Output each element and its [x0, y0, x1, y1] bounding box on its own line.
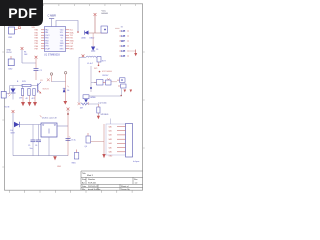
wire — [10, 85, 38, 87]
svg-text:SCH-001: SCH-001 — [88, 183, 97, 185]
svg-text:GPI: GPI — [121, 29, 126, 33]
svg-text:SA1: SA1 — [109, 130, 112, 133]
svg-text:V5 IN: V5 IN — [5, 107, 10, 109]
svg-text:C9 4u: C9 4u — [71, 140, 76, 142]
svg-text:PA0: PA0 — [45, 29, 48, 32]
transistor circuit mid-left : header — [17, 81, 27, 83]
svg-text:PB4: PB4 — [45, 40, 48, 42]
svg-text:IN 5V: IN 5V — [7, 52, 13, 54]
svg-text:SW1: SW1 — [72, 163, 76, 165]
regulator section: power cross + wire — [12, 110, 15, 124]
svg-text:3V3: 3V3 — [94, 68, 97, 70]
svg-text:SOT23: SOT23 — [43, 89, 49, 91]
capacitor C9 on rail — [66, 136, 76, 155]
small part far right — [107, 78, 132, 96]
sheet frame — [5, 4, 143, 190]
svg-text:Q4: Q4 — [85, 146, 87, 148]
capacitor C1 — [34, 56, 42, 80]
svg-text:hr bpw: hr bpw — [133, 160, 140, 163]
connector J3 bottom right — [106, 124, 133, 158]
net label text GND_IN — [7, 50, 13, 55]
svg-text:CN2: CN2 — [8, 68, 13, 70]
U1 pin names inside — [45, 29, 64, 51]
box LM part — [83, 95, 122, 99]
svg-text:OSCI: OSCI — [45, 35, 50, 37]
regulator U2 box — [41, 123, 57, 137]
resistor R3 vertical — [21, 86, 23, 96]
svg-text:D6: D6 — [67, 90, 69, 92]
resistor R2 horizontal — [22, 84, 31, 86]
node B test point — [64, 72, 66, 101]
svg-text:C12 100n: C12 100n — [98, 103, 107, 105]
ground rail bottom — [13, 125, 68, 161]
svg-text:L1 4u7: L1 4u7 — [87, 63, 93, 65]
svg-text:D5: D5 — [96, 49, 98, 51]
svg-text:RST: RST — [60, 46, 63, 48]
output rail vertical red — [67, 108, 70, 141]
svg-text:PA1: PA1 — [45, 31, 48, 34]
svg-text:C MBR: C MBR — [48, 14, 56, 18]
wire from U1 top to node right — [56, 21, 79, 33]
svg-text:SA0: SA0 — [109, 125, 112, 128]
VCC node mid right — [99, 71, 113, 73]
svg-text:SA4: SA4 — [109, 142, 112, 145]
svg-text:C6: C6 — [35, 145, 37, 147]
svg-text:Number: Number — [88, 179, 95, 181]
svg-text:WP: WP — [121, 39, 125, 43]
sheet background — [0, 0, 149, 198]
svg-text:SWD: SWD — [70, 40, 75, 42]
svg-text:PB7: PB7 — [35, 49, 39, 51]
connector CN3 — [1, 92, 6, 99]
LED D1 — [8, 86, 15, 100]
svg-text:CN1: CN1 — [8, 37, 13, 39]
diode D6 zener — [63, 86, 70, 93]
svg-text:GND: GND — [57, 166, 62, 168]
svg-text:PB4: PB4 — [35, 40, 39, 42]
U1 pins left — [41, 30, 45, 49]
crystal part right of ground rail — [72, 150, 79, 165]
frame zone ticks top/right/left — [2, 4, 145, 167]
resistor R9 chain lower — [78, 102, 99, 109]
svg-text:GPI: GPI — [121, 54, 126, 58]
svg-text:Drawn By: Drawn By — [121, 189, 130, 191]
power flag VCC above U1 — [48, 14, 56, 27]
ground arrows under transistor circuit — [21, 96, 37, 107]
wire to regulator — [19, 124, 41, 126]
U1 pins right — [66, 30, 70, 49]
svg-text:LM380: LM380 — [90, 97, 96, 99]
svg-text:10u: 10u — [30, 148, 33, 150]
diode D2 — [85, 31, 89, 35]
resistor R5 vertical — [33, 89, 35, 96]
svg-text:GPI: GPI — [121, 49, 126, 53]
ground wire to connector — [102, 124, 105, 158]
node VCC top right of U1 — [94, 13, 97, 33]
svg-text:DC/DC conv LM: DC/DC conv LM — [42, 117, 57, 119]
svg-text:Sheet of: Sheet of — [121, 185, 129, 188]
inductor L1 row — [82, 55, 97, 66]
wire long vertical from L1 — [78, 57, 80, 102]
svg-text:U1 STM8S003: U1 STM8S003 — [44, 54, 60, 57]
svg-text:SPI BUS: SPI BUS — [101, 114, 110, 116]
ground arrow — [63, 101, 67, 105]
node A test point — [50, 73, 52, 82]
connector CN2 left — [8, 56, 14, 70]
svg-text:PDF: PDF — [8, 5, 37, 21]
svg-text:TX1: TX1 — [70, 35, 73, 37]
diode D3 — [91, 33, 98, 51]
frame zone ticks bottom — [9, 190, 132, 193]
two boxes row — [91, 75, 111, 85]
svg-text:PB5: PB5 — [35, 43, 39, 45]
capacitor C12 vertical + power arrow above connector — [97, 103, 107, 120]
svg-text:Q1: Q1 — [40, 80, 43, 82]
title block — [81, 171, 143, 190]
diode D7 — [84, 99, 88, 102]
svg-text:PB6: PB6 — [35, 46, 39, 48]
net name text VCC HIGH — [102, 11, 109, 16]
power arrow right column — [129, 50, 137, 57]
svg-text:4K7: 4K7 — [32, 98, 35, 100]
svg-text:SCL: SCL — [70, 30, 74, 32]
svg-text:PB5: PB5 — [45, 43, 48, 45]
transistor Q4 mid-low — [85, 133, 105, 148]
wire into connector pin1 — [109, 119, 111, 127]
svg-text:C5: C5 — [28, 145, 30, 147]
svg-text:SA5: SA5 — [109, 146, 112, 149]
svg-text:2023-05-11: 2023-05-11 — [88, 186, 99, 188]
svg-text:RX1: RX1 — [70, 38, 74, 40]
connector CN1 top-left — [8, 27, 35, 39]
input caps C5 C6 — [28, 125, 41, 156]
svg-text:PA2: PA2 — [35, 34, 38, 37]
svg-text:C1: C1 — [40, 70, 42, 72]
resistor R4 vertical — [28, 89, 30, 96]
svg-text:HIGH5: HIGH5 — [102, 13, 109, 15]
small part J2a — [101, 26, 108, 33]
svg-text:5819: 5819 — [11, 133, 15, 135]
vertical wire with junction dot — [90, 66, 92, 92]
node VCC_3V3 — [94, 65, 99, 70]
schematic drawing — [1, 11, 140, 169]
svg-text:board.SchDoc: board.SchDoc — [88, 189, 101, 191]
svg-text:LM40: LM40 — [90, 38, 95, 40]
wire from regulator out — [57, 125, 68, 127]
svg-text:SA2: SA2 — [109, 134, 112, 137]
reference cluster mid-top: wire — [85, 32, 107, 34]
wire — [52, 81, 66, 83]
svg-text:PA3: PA3 — [35, 37, 38, 40]
svg-text:1V8: 1V8 — [19, 97, 22, 99]
resistor R1 vertical with power cross — [21, 47, 36, 63]
svg-text:SA3: SA3 — [109, 138, 112, 141]
svg-text:PB3: PB3 — [45, 38, 48, 40]
svg-text:GPI: GPI — [121, 44, 126, 48]
diode D4 — [11, 122, 20, 135]
svg-text:SA6: SA6 — [109, 151, 112, 154]
svg-text:PA1: PA1 — [35, 31, 38, 34]
U1 pin net labels left (red) — [35, 29, 39, 51]
op-amp U1 (MCU box) — [44, 27, 66, 57]
power cross at Q1 collector — [47, 78, 50, 81]
transistor Q2 — [97, 57, 107, 65]
U1 pin net labels right (red) — [70, 30, 75, 51]
transistor Q1 — [38, 80, 49, 94]
PDF badge — [0, 0, 43, 26]
svg-text:Rev: Rev — [134, 179, 138, 181]
svg-text:Mod 1: Mod 1 — [87, 175, 94, 177]
svg-text:VCC HIGH: VCC HIGH — [102, 71, 112, 73]
regulator U2 label — [40, 115, 57, 119]
svg-text:LM40: LM40 — [81, 38, 86, 40]
svg-text:FB DIV: FB DIV — [103, 75, 110, 77]
svg-text:PA0: PA0 — [35, 29, 38, 32]
svg-text:SCL: SCL — [60, 32, 63, 34]
svg-text:GPI: GPI — [121, 34, 126, 38]
